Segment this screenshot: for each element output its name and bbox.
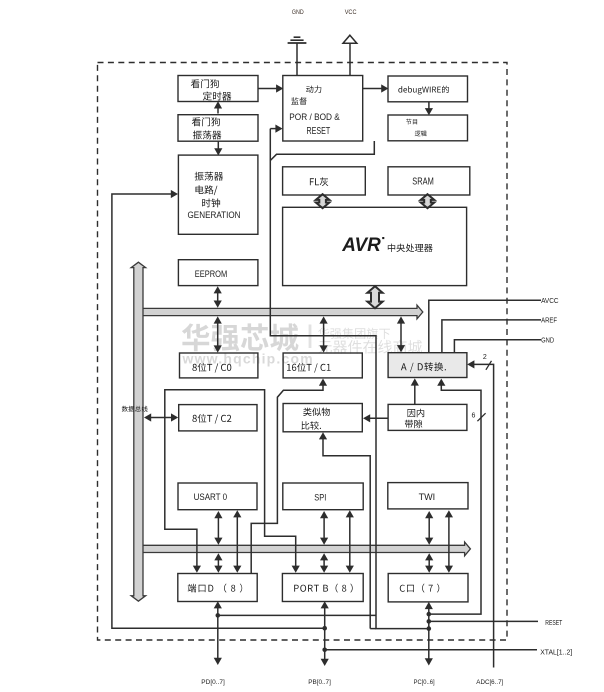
svg-text:SPI: SPI — [314, 492, 326, 502]
data bus horizontal 1 — [138, 305, 423, 319]
box Port B — [282, 574, 363, 602]
wire watchdog timer to POR — [258, 88, 282, 90]
wire POR bottom to reset net — [270, 141, 374, 161]
box 8bit T/C0 — [180, 353, 258, 378]
box watchdog oscillator — [178, 115, 258, 142]
svg-text:EEPROM: EEPROM — [195, 269, 227, 279]
svg-text:TWI: TWI — [419, 492, 436, 502]
box 16bit T/C1 — [283, 353, 362, 378]
wire AVCC — [429, 300, 541, 352]
wire XTAL left vertical to oscillator circuits — [112, 194, 325, 628]
svg-text:GENERATION: GENERATION — [188, 210, 241, 220]
wire bandgap to A/D — [414, 380, 416, 404]
arrow bus-TC0 — [217, 318, 219, 351]
wire TC0 output net to ports D and B — [165, 390, 296, 571]
dashed border — [98, 63, 508, 641]
box Port D — [178, 574, 257, 602]
wire analog comparator inputs — [323, 434, 370, 629]
arrow EEPROM-bus — [217, 288, 219, 306]
label databus — [122, 406, 148, 412]
svg-text:6: 6 — [472, 413, 476, 420]
box USART0 — [178, 483, 257, 510]
svg-text:AVCC: AVCC — [541, 298, 559, 305]
wire watchdog osc to oscillator circuits — [217, 141, 219, 153]
wire bandgap to comparator — [365, 417, 388, 419]
svg-text:XTAL[1..2]: XTAL[1..2] — [540, 650, 572, 657]
svg-text:AREF: AREF — [541, 318, 557, 325]
bus width slash 6 — [477, 413, 485, 421]
wire TC1 outputs to ports — [251, 380, 323, 573]
svg-text:PD[0..7]: PD[0..7] — [201, 679, 225, 686]
box debugWIRE — [388, 76, 468, 102]
wire watchdog osc to watchdog timer — [217, 103, 219, 113]
box oscillator circuits / clock generation — [178, 155, 258, 234]
box SPI — [283, 483, 363, 510]
wire PD junction to V1 — [218, 614, 376, 616]
arrows USART-bus and USART-PortD — [217, 513, 219, 543]
svg-text:GND: GND — [541, 338, 554, 345]
arrow databus-TC2 — [146, 417, 177, 419]
svg-text:RESET: RESET — [307, 126, 331, 137]
block arrow SRAM-CPU — [421, 194, 435, 208]
box AVR CPU — [283, 207, 467, 285]
VCC supply symbol — [343, 35, 357, 43]
svg-text:PB[0..7]: PB[0..7] — [308, 679, 331, 686]
svg-text:AVR: AVR — [341, 234, 380, 256]
svg-text:RESET: RESET — [545, 620, 563, 627]
svg-text:2: 2 — [483, 354, 487, 361]
svg-text:SRAM: SRAM — [412, 177, 434, 188]
wire ADC[6..7] to A/D converter — [469, 364, 494, 667]
wire XTAL label — [325, 649, 537, 651]
arrows TWI-bus and TWI-PortC — [428, 513, 430, 543]
wire GND right — [454, 340, 541, 353]
bus width slash 2 — [486, 361, 492, 370]
wire PD pins — [217, 603, 219, 663]
svg-text:POR / BOD &: POR / BOD & — [289, 112, 340, 123]
wire AREF — [442, 320, 541, 353]
svg-text:VCC: VCC — [345, 9, 357, 16]
GND supply symbol — [294, 36, 301, 38]
wire ADC6 bus: PC junction to ADC — [429, 380, 481, 614]
arrow bus-TC1 — [323, 318, 325, 351]
data bus horizontal 2 — [138, 542, 470, 556]
box EEPROM — [178, 260, 258, 286]
wire PB pins — [324, 603, 326, 664]
block arrow FLASH-CPU — [316, 194, 330, 208]
watermark hqchip — [182, 323, 299, 351]
wire RESET net: PC pin to POR block — [270, 129, 429, 629]
svg-text:ADC[6..7]: ADC[6..7] — [476, 679, 503, 686]
block arrow CPU-bus — [367, 286, 382, 308]
box program logic — [388, 115, 468, 141]
box FLASH — [283, 167, 366, 195]
arrows SPI-bus and SPI-PortB — [323, 513, 325, 543]
box A/D converter — [388, 353, 467, 378]
box bandgap — [388, 404, 467, 430]
svg-text:GND: GND — [292, 9, 304, 16]
box 8bit T/C2 — [179, 405, 257, 431]
box watchdog timer — [178, 76, 258, 102]
wire POR to debugWIRE — [363, 88, 387, 90]
wire PC pins — [428, 604, 430, 664]
box power supervision POR/BOD RESET — [283, 76, 363, 142]
svg-text:USART 0: USART 0 — [194, 492, 228, 502]
box TWI — [388, 483, 468, 509]
wire VCC to POR — [349, 43, 351, 75]
box Port C — [388, 574, 468, 602]
arrow bus-ADC — [400, 318, 402, 351]
wire debugWIRE to program logic — [428, 102, 430, 113]
wire comparator net join — [370, 628, 376, 630]
wire GND to POR — [296, 43, 298, 76]
box analog comparator — [283, 404, 362, 432]
data bus vertical — [131, 262, 145, 601]
box SRAM — [388, 167, 470, 195]
wire RESET label — [429, 620, 538, 622]
svg-text:PC[0..6]: PC[0..6] — [414, 679, 435, 686]
